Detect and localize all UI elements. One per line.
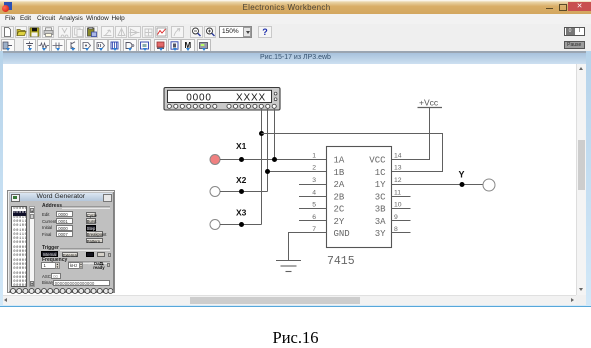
- svg-text:3B: 3B: [375, 205, 386, 215]
- toolbar row 1: [0, 24, 591, 38]
- svg-text:12: 12: [394, 177, 402, 184]
- wg address group: [42, 203, 62, 209]
- IC U1 7415 body: [327, 147, 392, 269]
- svg-text:14: 14: [394, 152, 402, 159]
- wire pin6 stub: [299, 220, 327, 222]
- wg title bar: [10, 193, 113, 202]
- toolbar row 2: [0, 38, 591, 53]
- svg-text:1B: 1B: [334, 168, 345, 178]
- wg frequency group: [42, 257, 67, 263]
- wire X3 horizontal: [220, 224, 262, 226]
- caption: [0, 328, 591, 348]
- svg-text:13: 13: [394, 165, 402, 172]
- svg-text:3C: 3C: [375, 193, 386, 203]
- svg-text:7415: 7415: [327, 255, 355, 268]
- svg-text:3A: 3A: [375, 217, 386, 227]
- svg-text:10: 10: [394, 202, 402, 209]
- svg-text:1C: 1C: [375, 168, 386, 178]
- svg-text:0000: 0000: [186, 93, 211, 104]
- wire pin7 to ground: [289, 233, 327, 261]
- wire net to pin13: horizontal top: [262, 134, 443, 172]
- svg-text:2: 2: [312, 165, 316, 172]
- terminal Y: [459, 170, 496, 192]
- doc window title bar: [0, 51, 591, 53]
- min / max / close: [546, 8, 553, 10]
- node junction bit14/pin2: [265, 169, 270, 174]
- wire pin2 horizontal: [268, 171, 327, 173]
- horizontal scrollbar: [0, 295, 576, 305]
- wire WG bit14 vertical to pin2 net: [267, 108, 269, 192]
- vertical scrollbar: [576, 64, 586, 296]
- wire WG bit15 vertical to pin1 net: [274, 108, 276, 160]
- svg-text:9: 9: [394, 214, 398, 221]
- zoom dropdown: [219, 26, 252, 38]
- wire pin3 stub: [299, 184, 327, 186]
- terminal X1: [210, 141, 247, 165]
- node X3 stub dot: [239, 222, 244, 227]
- wire pin5 stub: [299, 208, 327, 210]
- title bar: [0, 0, 591, 14]
- wire pin4 stub: [299, 196, 327, 198]
- wg list scrollbar: [29, 206, 35, 287]
- node junction bit15/pin1: [272, 157, 277, 162]
- svg-text:6: 6: [312, 214, 316, 221]
- svg-text:1A: 1A: [334, 156, 345, 166]
- window borders: [0, 51, 3, 305]
- svg-text:3Y: 3Y: [375, 229, 386, 239]
- wg trigger group: [42, 245, 59, 251]
- node X2 stub dot: [239, 189, 244, 194]
- svg-text:8: 8: [394, 226, 398, 233]
- svg-text:5: 5: [312, 202, 316, 209]
- svg-text:2A: 2A: [334, 180, 345, 190]
- row2 buttons (component palettes): [1, 39, 15, 52]
- menu bar: [0, 14, 591, 25]
- terminal X3: [210, 208, 247, 230]
- wire X2 horizontal: [220, 191, 268, 193]
- word generator terminals row: [167, 104, 276, 108]
- pin labels right column: [369, 156, 386, 240]
- row1 buttons: [1, 26, 14, 38]
- canvas: [2, 64, 576, 296]
- pin number labels right: [394, 152, 402, 233]
- svg-text:1: 1: [312, 152, 316, 159]
- wire pin11 stub: [392, 196, 411, 198]
- svg-text:2Y: 2Y: [334, 217, 345, 227]
- wg word list: [11, 206, 27, 287]
- wire pin10 stub: [392, 208, 411, 210]
- svg-text:11: 11: [394, 189, 401, 196]
- wire pin8 stub: [392, 232, 411, 234]
- terminal X2: [210, 175, 247, 197]
- svg-text:4: 4: [312, 189, 316, 196]
- pin number labels left: [312, 152, 316, 233]
- wire pin12 to Y: [392, 184, 484, 186]
- app icon: blue square + red ball: [4, 2, 12, 10]
- svg-text:2B: 2B: [334, 193, 345, 203]
- +Vcc supply: [418, 98, 443, 108]
- ground: [276, 261, 301, 272]
- word generator instrument XWG1: [164, 88, 280, 111]
- svg-text:+Vcc: +Vcc: [419, 98, 439, 108]
- pin labels left column: [334, 156, 350, 240]
- svg-text:X3: X3: [236, 208, 247, 218]
- wire pin9 stub: [392, 220, 411, 222]
- power switch: [564, 27, 585, 37]
- svg-text:Y: Y: [459, 170, 465, 180]
- svg-text:1Y: 1Y: [375, 180, 386, 190]
- pause button: [564, 41, 585, 50]
- svg-text:XXXX: XXXX: [236, 93, 266, 104]
- node X1 stub dot: [239, 157, 244, 162]
- wire X1 to pin1: [220, 159, 327, 161]
- wire WG bit13 vertical to X3/1C net: [261, 108, 263, 225]
- svg-text:X2: X2: [236, 175, 247, 185]
- svg-text:VCC: VCC: [369, 156, 386, 166]
- node junction bit13/pin13wire: [259, 131, 264, 136]
- svg-text:7: 7: [312, 226, 316, 233]
- svg-text:X1: X1: [236, 141, 247, 151]
- wg bottom terminals: [10, 288, 113, 294]
- svg-text:2C: 2C: [334, 205, 345, 215]
- node Y dot: [460, 182, 465, 187]
- svg-text:GND: GND: [334, 229, 350, 239]
- wire Vcc to pin14: [392, 108, 430, 160]
- wg ascii/binary: [42, 274, 53, 279]
- svg-text:3: 3: [312, 177, 316, 184]
